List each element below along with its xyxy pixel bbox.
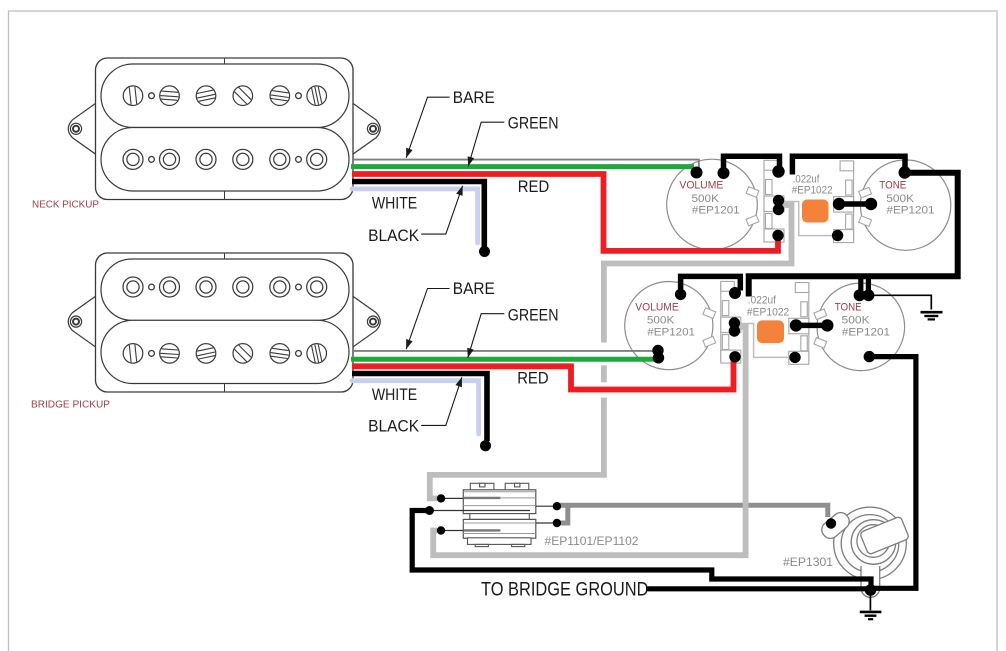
solder joint neck tone casing: [899, 166, 911, 178]
switch label: [545, 534, 639, 548]
neck pickup label: [32, 199, 99, 211]
solder joint bridge black lead end: [480, 440, 491, 451]
svg-text:#EP1201: #EP1201: [842, 326, 890, 338]
wire bridge tone cap jumper: [798, 323, 826, 329]
solder joint bridge volume middle lug a: [729, 317, 740, 328]
svg-text:500K: 500K: [692, 193, 720, 205]
svg-text:#EP1301: #EP1301: [783, 555, 833, 569]
neck pickup (humbucker): [68, 58, 380, 200]
wire neck volume lug to neck tone casing: [792, 156, 905, 174]
bridge pickup (humbucker): [68, 253, 380, 392]
wire cap C2 thin leads: [740, 324, 793, 358]
solder joint bridge volume casing top: [675, 289, 686, 300]
svg-text:VOLUME: VOLUME: [679, 180, 723, 192]
solder joint bridge tone middle lug left: [790, 319, 802, 331]
wire neck volume middle lug to switch (light gray): [430, 205, 792, 498]
wire bridge black: [352, 374, 487, 442]
solder joint bridge tone output: [864, 351, 875, 362]
switch terminal lead top-left: [441, 497, 463, 499]
solder joint neck volume middle lug b: [773, 204, 784, 215]
wire neck white: [352, 189, 478, 243]
svg-text:RED: RED: [518, 178, 549, 196]
neck volume text: [679, 180, 739, 217]
solder joint neck volume casing (green/bare): [691, 167, 703, 179]
solder joint neck volume middle lug a: [773, 195, 784, 206]
svg-text:500K: 500K: [647, 314, 675, 326]
solder joint bridge volume bottom lug: [729, 351, 740, 362]
svg-text:GREEN: GREEN: [508, 115, 559, 133]
leader arrow bridge BARE: [406, 289, 449, 350]
neck tone text: [879, 180, 934, 217]
wire bus branch to bridge tone casing: [861, 276, 869, 292]
label bridge RED: [517, 370, 548, 388]
wire bridge volume middle lug to switch (light gray): [433, 327, 745, 555]
output jack #EP1301: [819, 507, 910, 597]
wire neck green: [351, 164, 694, 169]
label bridge BLACK: [368, 418, 419, 436]
volume pot U1 (neck volume): [667, 159, 784, 250]
capacitor C1 label: [792, 173, 833, 196]
leader arrow bridge BLACK: [421, 377, 462, 425]
volume pot U3 (bridge volume): [625, 281, 741, 369]
svg-text:.022uf: .022uf: [793, 173, 821, 185]
wire cap C1 thin leads: [782, 202, 836, 236]
wire bridge white: [352, 381, 479, 434]
switch terminal lead bottom-left: [441, 530, 463, 532]
svg-text:500K: 500K: [842, 314, 871, 326]
switch terminal lead middle-left: [430, 510, 531, 512]
label neck RED: [518, 178, 549, 196]
svg-text:#EP1101/EP1102: #EP1101/EP1102: [545, 534, 639, 548]
capacitor C1 .022uf: [802, 200, 829, 223]
solder joint neck tone bottom lug: [832, 230, 843, 241]
wire jack sleeve to bridge tone output: [870, 357, 916, 589]
solder joint bridge volume top lug: [729, 287, 741, 299]
svg-text:BARE: BARE: [453, 89, 495, 107]
ground symbol (pot casing): [872, 295, 943, 319]
wire switch output to jack (dark gray): [558, 505, 828, 523]
wire bridge red: [352, 359, 734, 390]
output jack label: [783, 555, 833, 569]
switch terminal lead top-right: [536, 505, 556, 507]
tone pot U4 (bridge tone): [789, 283, 905, 371]
solder joint bridge volume middle lug b: [729, 325, 740, 336]
solder joint neck tone middle lug right: [865, 198, 877, 210]
svg-text:GREEN: GREEN: [508, 306, 559, 324]
solder joint neck volume top lug: [772, 165, 784, 177]
svg-text:TO BRIDGE GROUND: TO BRIDGE GROUND: [481, 580, 649, 601]
leader arrow bridge GREEN: [467, 314, 504, 358]
label TO BRIDGE GROUND: [481, 580, 649, 601]
svg-text:NECK PICKUP: NECK PICKUP: [32, 199, 99, 211]
leader arrow neck BLACK: [421, 186, 462, 234]
bridge pickup label: [31, 398, 110, 410]
wire neck volume casing jumper: [724, 156, 780, 176]
switch solder joint top-left: [437, 494, 445, 502]
solder joint neck volume casing (jumper): [718, 167, 730, 179]
wire bridge bare: [353, 350, 656, 352]
svg-text:BARE: BARE: [453, 280, 495, 298]
switch solder joint middle-left: [425, 506, 434, 515]
bridge volume text: [635, 302, 695, 339]
wire neck black: [352, 182, 484, 248]
switch terminal lead bottom-right: [536, 522, 556, 524]
solder joint bridge tone middle lug right: [821, 319, 833, 331]
leader arrow neck BARE: [406, 97, 449, 158]
svg-text:#EP1201: #EP1201: [647, 326, 695, 338]
solder joint bridge tone casing: [854, 289, 875, 301]
wire neck red: [352, 174, 778, 251]
wire bridge green: [351, 357, 655, 362]
label neck BARE: [453, 89, 495, 107]
label bridge WHITE: [372, 386, 417, 404]
solder joint jack tip lug: [826, 518, 836, 528]
svg-text:RED: RED: [517, 370, 548, 388]
label neck BLACK: [368, 227, 419, 245]
label bridge BARE: [453, 280, 495, 298]
svg-text:500K: 500K: [886, 193, 915, 205]
capacitor C2 label: [747, 295, 789, 319]
switch (3-way) body: [463, 483, 536, 546]
wire bridge volume casing jumper: [681, 276, 741, 293]
label neck WHITE: [372, 195, 417, 213]
svg-text:VOLUME: VOLUME: [635, 302, 678, 314]
label bridge GREEN: [508, 306, 559, 324]
solder joint bridge tone bottom lug: [789, 352, 800, 363]
switch solder joint bottom-left: [437, 526, 445, 534]
svg-text:#EP1201: #EP1201: [692, 204, 740, 216]
solder joint neck volume bottom lug: [772, 230, 783, 241]
ground symbol (jack): [860, 592, 882, 619]
svg-text:TONE: TONE: [835, 302, 862, 314]
wire neck tone casing to bridge area bus: [749, 173, 958, 297]
switch solder joint bottom-right: [553, 519, 561, 527]
svg-text:TONE: TONE: [879, 180, 906, 192]
wire to bridge ground: [649, 586, 868, 591]
svg-text:BRIDGE PICKUP: BRIDGE PICKUP: [31, 398, 110, 410]
svg-text:WHITE: WHITE: [372, 195, 417, 213]
solder joint neck tone middle lug left: [833, 198, 845, 210]
capacitor C2 .022uf: [757, 320, 784, 343]
svg-text:BLACK: BLACK: [368, 418, 419, 436]
bridge tone text: [835, 302, 890, 339]
leader arrow neck GREEN: [468, 122, 505, 166]
svg-text:BLACK: BLACK: [368, 227, 419, 245]
label neck GREEN: [508, 115, 559, 133]
tone pot U2 (neck tone): [834, 160, 951, 250]
svg-text:#EP1022: #EP1022: [747, 306, 789, 318]
svg-text:#EP1201: #EP1201: [887, 205, 935, 217]
svg-text:#EP1022: #EP1022: [792, 185, 833, 197]
solder joint jack sleeve: [865, 584, 877, 596]
wire neck bare: [353, 160, 699, 168]
solder joint bridge volume casing left (bare): [652, 345, 663, 356]
svg-text:.022uf: .022uf: [748, 295, 777, 307]
svg-text:WHITE: WHITE: [372, 386, 417, 404]
wire switch common to jack sleeve: [412, 511, 871, 587]
switch solder joint top-right: [553, 502, 561, 510]
wire neck tone cap jumper: [841, 201, 869, 207]
solder joint neck black lead end: [479, 246, 490, 257]
solder joint bridge volume casing left (green): [653, 352, 664, 363]
